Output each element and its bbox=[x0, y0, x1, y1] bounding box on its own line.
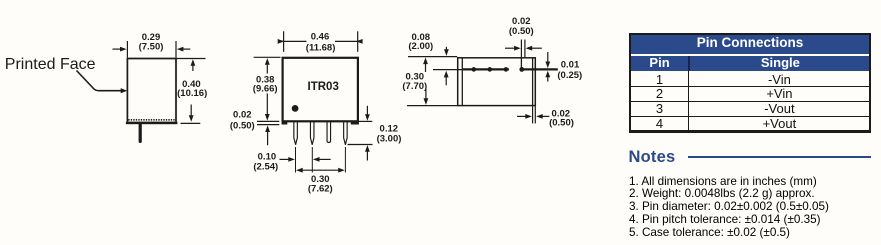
pin 2 extension line bbox=[311, 147, 313, 173]
dim 0.12 (3.00): label bbox=[377, 124, 402, 145]
top view: pin dot 3 bbox=[504, 67, 509, 72]
dim 0.30 (7.70): bottom arrow bbox=[424, 89, 429, 105]
dim 0.38 (9.66): bottom arrow bbox=[265, 93, 270, 120]
top view: pin row line (left segment) bbox=[463, 68, 509, 70]
dim 0.08 (2.00): top arrow bbox=[444, 47, 449, 56]
pin 4 extension line bbox=[344, 147, 346, 173]
dim 0.12 (3.00): top arrow bbox=[365, 106, 370, 121]
front view: right standoff foot bbox=[351, 121, 359, 124]
pin 1 extension line bbox=[295, 147, 297, 173]
front view: case outline bbox=[283, 58, 358, 122]
dim 0.30 (7.70): label bbox=[402, 72, 427, 92]
dim 0.46 (11.68): left arrow bbox=[278, 39, 307, 44]
top view: pin dot 2 bbox=[488, 67, 493, 72]
top view: pin row line (right segment) bbox=[520, 68, 558, 70]
top view: case outline bbox=[458, 58, 536, 106]
note 4 bbox=[629, 214, 829, 227]
note 2 bbox=[629, 188, 829, 201]
dim 0.12 (3.00): bottom arrow bbox=[365, 145, 370, 160]
top view: notch line bbox=[520, 58, 522, 69]
svg-text:(2.54): (2.54) bbox=[253, 162, 278, 173]
dim 0.02 (0.50) standoff: bottom arrow bbox=[265, 125, 270, 145]
table row pin 4 bbox=[631, 117, 870, 132]
dim 0.29 (7.50): label bbox=[139, 32, 164, 53]
dim 0.29 (7.50): left arrow bbox=[113, 47, 127, 52]
dim 0.01 (0.25): bottom arrow bbox=[545, 71, 550, 82]
svg-text:(0.50): (0.50) bbox=[549, 118, 574, 129]
dim 0.29 (7.50): right arrow bbox=[177, 47, 191, 52]
pin connections table bbox=[629, 33, 872, 134]
front view: left standoff foot bbox=[282, 121, 288, 124]
dim 0.40 (10.16): bottom extension line bbox=[181, 122, 201, 124]
front view: pin 2 bbox=[310, 122, 314, 145]
svg-text:0.02: 0.02 bbox=[512, 16, 531, 27]
dim 0.30 (7.62): label bbox=[308, 174, 333, 194]
dim 0.46 (11.68): right arrow bbox=[335, 39, 363, 44]
side view: header strip (dotted) bbox=[128, 119, 175, 121]
top view: pin dot 4 bbox=[519, 67, 524, 72]
dim 0.02 (0.50) top: left arrow bbox=[505, 46, 521, 51]
dim 0.02 (0.50) bottom: right arrow bbox=[536, 114, 549, 119]
dim 0.12 (3.00): top extension line bbox=[359, 120, 372, 122]
svg-text:(0.50): (0.50) bbox=[230, 121, 255, 132]
notes rule bbox=[688, 156, 871, 158]
svg-text:(7.70): (7.70) bbox=[402, 81, 427, 92]
dim 0.02 (0.50) bottom: extension lines bbox=[533, 106, 536, 123]
note 1 bbox=[629, 176, 829, 189]
dim 0.02 (0.50) standoff: label bbox=[230, 109, 255, 131]
dim 0.46 (11.68): label bbox=[306, 32, 336, 54]
dim 0.08 (2.00)/0.30 (7.70): top extension line bbox=[408, 56, 457, 58]
svg-text:(2.00): (2.00) bbox=[408, 41, 433, 52]
side view: base band bbox=[126, 122, 177, 125]
dim 0.38 (9.66): top extension line bbox=[254, 56, 281, 58]
svg-text:Printed Face: Printed Face bbox=[5, 56, 96, 73]
svg-text:(0.50): (0.50) bbox=[509, 26, 534, 37]
dim 0.02 (0.50) standoff: extension lines bbox=[257, 121, 279, 124]
label: Printed Face bbox=[5, 56, 96, 73]
table row pin 2 bbox=[631, 87, 870, 102]
table subheader: Pin / Single bbox=[631, 56, 870, 71]
table column divider bbox=[688, 71, 689, 131]
svg-text:(10.16): (10.16) bbox=[177, 88, 207, 99]
dim 0.40 (10.16): bottom arrow bbox=[189, 105, 194, 122]
dim 0.40 (10.16): top extension line bbox=[176, 58, 206, 60]
side view: case body bbox=[127, 59, 176, 122]
notes heading bbox=[629, 148, 676, 167]
dim 0.02 (0.50) bottom: left arrow bbox=[517, 114, 532, 119]
dim 0.40 (10.16): top arrow bbox=[191, 59, 196, 71]
dim 0.38 (9.66): label bbox=[253, 75, 278, 95]
top view: pin dot 1 bbox=[472, 67, 477, 72]
top view: left wall inner line bbox=[461, 58, 463, 105]
svg-text:(7.50): (7.50) bbox=[139, 42, 164, 53]
leader arrow to printed face bbox=[77, 71, 128, 94]
dim 0.08 (2.00): label bbox=[408, 32, 433, 52]
svg-text:0.46: 0.46 bbox=[311, 32, 330, 43]
dim 0.12 (3.00): bottom extension line bbox=[348, 144, 373, 146]
svg-text:(11.68): (11.68) bbox=[306, 42, 336, 53]
dim 0.08 (2.00): bottom arrow bbox=[444, 71, 449, 86]
dim 0.08 (2.00)/0.30 (7.70): pin row extension line bbox=[433, 69, 462, 71]
dim 0.02 (0.50) top: extension lines bbox=[521, 40, 525, 58]
dim 0.10 (2.54): label bbox=[253, 151, 278, 172]
note 5 bbox=[629, 227, 829, 240]
front view: pin 4 bbox=[344, 122, 348, 145]
dim 0.30 (7.62): dimension line with arrows bbox=[296, 168, 345, 173]
svg-text:(7.62): (7.62) bbox=[308, 183, 333, 194]
svg-text:(0.25): (0.25) bbox=[557, 70, 582, 81]
dim 0.38 (9.66): top arrow bbox=[265, 58, 270, 73]
dim 0.29 (7.50): extension lines bbox=[127, 41, 176, 58]
svg-text:(9.66): (9.66) bbox=[253, 84, 278, 95]
front view: pin 1 dot bbox=[292, 105, 299, 112]
note 3 bbox=[629, 201, 829, 214]
table row pin 3 bbox=[631, 102, 870, 117]
dim 0.30 (7.70): bottom extension line bbox=[407, 105, 457, 107]
svg-text:0.02: 0.02 bbox=[233, 109, 252, 120]
front view: pin 1 bbox=[294, 122, 298, 145]
top view: right wall inner line bbox=[532, 58, 534, 105]
svg-text:(3.00): (3.00) bbox=[377, 133, 402, 144]
front view: part number ITR03 bbox=[308, 81, 339, 93]
table header: Pin Connections bbox=[631, 35, 870, 54]
side view: pin bbox=[139, 124, 142, 141]
dim 0.40 (10.16): label bbox=[177, 79, 207, 99]
dim 0.01 (0.25): top arrow bbox=[545, 52, 550, 68]
dim 0.02 (0.50) bottom: label bbox=[549, 108, 574, 128]
dim 0.02 (0.50) top: label bbox=[509, 16, 534, 37]
dim 0.30 (7.70): top arrow bbox=[423, 58, 428, 73]
table row pin 1 bbox=[631, 73, 870, 88]
svg-text:ITR03: ITR03 bbox=[308, 81, 339, 93]
dim 0.02 (0.50) top: right arrow bbox=[526, 46, 542, 51]
notes list bbox=[629, 176, 829, 240]
front view: pin 3 bbox=[327, 122, 331, 143]
dim 0.10 (2.54): left arrow bbox=[280, 157, 295, 162]
dim 0.10 (2.54): right arrow bbox=[313, 157, 331, 162]
dim 0.01 (0.25): label bbox=[557, 60, 582, 81]
dim 0.46 (11.68): extension lines bbox=[284, 31, 358, 52]
